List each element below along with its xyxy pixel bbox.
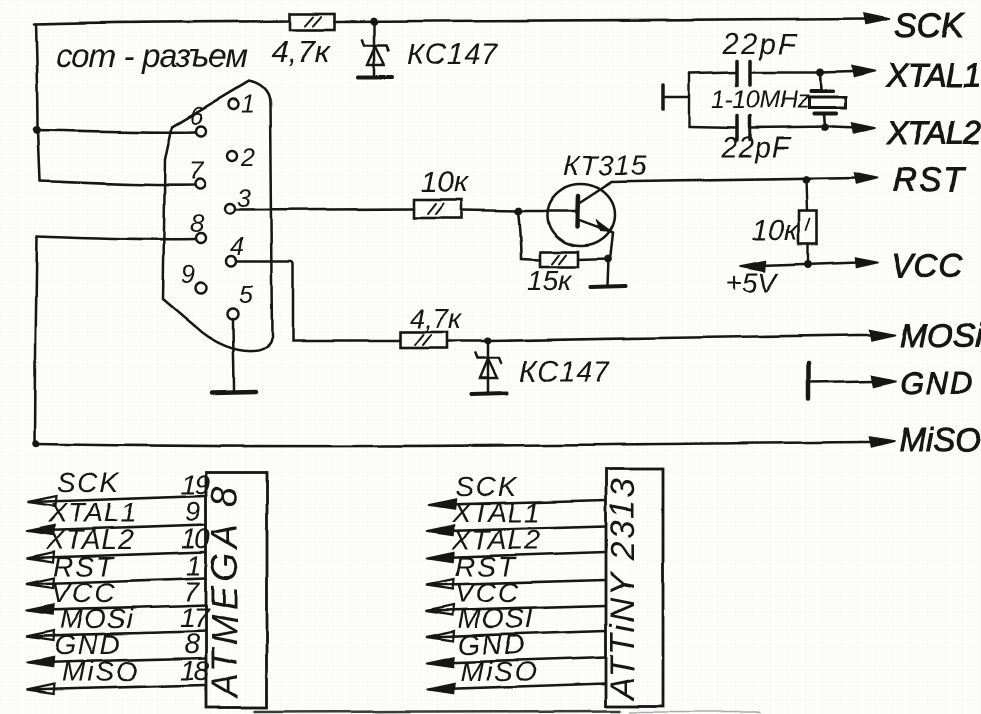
ATMEGA row SCK pin 19	[28, 467, 210, 506]
wire base node down to 15k	[518, 211, 540, 260]
svg-text:10к: 10к	[751, 214, 800, 247]
ATMEGA row RST pin 1	[26, 550, 206, 588]
arrowhead XTAL2	[852, 123, 876, 134]
node base junction	[514, 207, 522, 215]
svg-text:4,7к: 4,7к	[409, 303, 463, 334]
pin 6	[196, 126, 206, 136]
node VCC junction	[804, 260, 812, 268]
svg-text:4: 4	[230, 233, 244, 261]
ATMEGA row XTAL1 pin 9	[26, 496, 206, 535]
wire pin4 elbow to 4,7k	[237, 261, 400, 341]
node emitter junction	[604, 255, 612, 263]
wire GND	[810, 381, 875, 382]
arrowhead MOSI	[870, 330, 896, 341]
ATTINY row SCK	[428, 471, 606, 509]
wire to pin 7	[40, 181, 195, 185]
ATTINY 2313 IC body	[606, 469, 663, 706]
ground emitter	[590, 259, 625, 287]
arrowhead RST	[854, 173, 878, 184]
junction dot MISO corner	[32, 440, 40, 448]
svg-text:MiSO: MiSO	[460, 656, 538, 687]
svg-text:9: 9	[181, 261, 195, 289]
crystal 1-10MHz	[809, 73, 846, 132]
node junction top zener	[370, 18, 378, 26]
ATMEGA row VCC pin 7	[26, 576, 206, 614]
pin 8	[196, 233, 206, 243]
wire 4,7k to zener node	[447, 340, 488, 343]
pin 5	[228, 309, 239, 320]
pin 2	[227, 151, 237, 161]
svg-text:ATMEGA 8: ATMEGA 8	[204, 483, 245, 700]
resistor 10k pull-up	[799, 180, 817, 264]
GND stub bar	[807, 363, 812, 399]
left vertical bus upper	[36, 24, 40, 181]
wire RST	[612, 178, 858, 182]
capacitor 22pF bottom	[689, 116, 833, 140]
svg-text:КС147: КС147	[519, 356, 611, 388]
svg-text:8: 8	[190, 210, 204, 238]
wire after resistor to SCK arrow	[334, 19, 868, 22]
svg-text:SCK: SCK	[57, 467, 121, 498]
svg-text:22pF: 22pF	[720, 132, 792, 164]
svg-text:MOSi: MOSi	[900, 317, 981, 354]
crystal left stub	[663, 73, 689, 127]
wire 10k to base	[462, 210, 518, 211]
wire VCC	[744, 262, 858, 266]
wire to pin 6	[37, 130, 196, 132]
svg-text:XTAL1: XTAL1	[886, 57, 980, 94]
svg-text:2: 2	[240, 144, 255, 172]
ATTINY row VCC	[426, 577, 606, 615]
node zener lower	[485, 338, 492, 345]
scan artifact bottom edge	[255, 711, 620, 712]
svg-text:5: 5	[239, 281, 253, 309]
ATMEGA 8 IC body	[206, 472, 267, 708]
svg-text:10к: 10к	[421, 166, 470, 199]
wire MISO	[36, 442, 860, 446]
left vertical bus lower (pin8 to MISO)	[35, 236, 37, 444]
svg-text:ATTiNY 2313: ATTiNY 2313	[604, 477, 642, 702]
resistor 4,7k lower	[400, 332, 447, 348]
node XTAL1 junction	[816, 68, 824, 76]
svg-text:GND: GND	[900, 366, 975, 401]
capacitor 22pF top	[689, 61, 820, 85]
svg-text:7: 7	[189, 157, 204, 185]
arrowhead MISO	[869, 437, 895, 447]
pin 7	[195, 179, 205, 189]
svg-text:КТ315: КТ315	[563, 150, 648, 181]
svg-text:VCC: VCC	[891, 247, 964, 284]
DB9 connector outline	[163, 81, 272, 351]
svg-text:XTAL2: XTAL2	[886, 114, 981, 151]
wire XTAL2 arrow	[833, 127, 857, 128]
svg-text:MiSO: MiSO	[899, 421, 981, 458]
ATTINY row RST	[426, 551, 606, 589]
ATTINY row XTAL1	[426, 497, 606, 535]
resistor 4,7k top	[290, 14, 334, 30]
wire 15k to emitter node	[578, 259, 608, 260]
resistor 15k	[540, 252, 578, 267]
wire MOSI	[488, 335, 857, 341]
svg-text:+5V: +5V	[726, 267, 779, 298]
resistor 10k series	[414, 200, 462, 218]
svg-text:com - разъем: com - разъем	[56, 37, 247, 74]
svg-text:22pF: 22pF	[722, 29, 797, 61]
svg-text:15к: 15к	[527, 265, 573, 296]
ATTINY row MISO	[426, 656, 606, 694]
zener KC147 top	[358, 22, 392, 77]
ATMEGA row MISO pin 18	[26, 655, 210, 694]
ATMEGA row MOSI pin 17	[26, 602, 211, 640]
svg-text:18: 18	[180, 655, 210, 686]
svg-text:6: 6	[190, 102, 204, 130]
wire to pin 8	[37, 236, 196, 239]
pin 3	[225, 204, 235, 214]
ATTINY row XTAL2	[426, 524, 606, 562]
svg-text:SCK: SCK	[894, 7, 965, 45]
wire XTAL1 arrow	[820, 71, 856, 72]
arrowhead GND	[871, 376, 896, 387]
arrowhead SCK	[864, 14, 890, 25]
wire pin3 to 10k	[236, 209, 414, 210]
pin 9	[196, 283, 207, 294]
ATMEGA row GND pin 8	[26, 628, 206, 667]
ATTINY row GND	[426, 629, 606, 667]
ATTINY row MOSI	[426, 603, 606, 641]
arrowhead XTAL1	[853, 66, 877, 77]
ATMEGA row XTAL2 pin 10	[26, 523, 211, 562]
transistor KT315	[547, 182, 615, 259]
junction dot pin6 wire	[33, 126, 41, 134]
wire base node to transistor	[518, 210, 576, 213]
zener KC147 lower	[472, 341, 506, 394]
pin 4	[226, 256, 236, 266]
svg-text:КС147: КС147	[407, 39, 499, 71]
ground pin 5	[212, 319, 256, 393]
wire SCK top horizontal	[34, 21, 290, 24]
node RST pullup	[802, 176, 810, 184]
arrowhead +5V left	[740, 261, 766, 271]
svg-text:MiSO: MiSO	[62, 656, 140, 687]
svg-text:RST: RST	[893, 161, 966, 198]
pin 1	[229, 99, 239, 109]
svg-text:1: 1	[241, 90, 255, 118]
svg-text:4,7к: 4,7к	[272, 34, 331, 69]
arrowhead VCC	[855, 258, 878, 268]
svg-text:1-10MHz: 1-10MHz	[711, 86, 810, 114]
